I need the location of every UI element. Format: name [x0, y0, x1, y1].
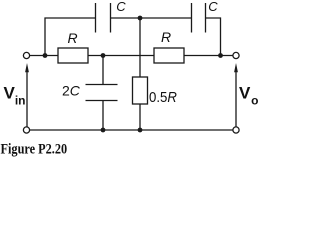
node A junction dot [43, 53, 48, 58]
resistor R2 [154, 48, 184, 63]
Vo arrowhead [234, 63, 238, 72]
svg-text:Figure P2.20: Figure P2.20 [1, 140, 68, 156]
capacitor C3 2C [86, 85, 118, 101]
wire Vo arrow shaft [235, 72, 237, 127]
wire R2 to output terminal [184, 55, 233, 57]
node C junction dot [101, 53, 106, 58]
node E junction dot [101, 128, 106, 133]
wire top rail right with drop to output node [206, 18, 221, 56]
wire riser node B to 0.5R [139, 18, 141, 77]
svg-text:2C: 2C [62, 83, 81, 99]
wire 2C to bottom rail [102, 101, 104, 131]
svg-text:Vo: Vo [239, 84, 258, 108]
wire node C riser to 2C [102, 56, 104, 85]
svg-text:0.5R: 0.5R [149, 88, 177, 105]
svg-text:C: C [208, 0, 218, 14]
wire Vin arrow shaft [26, 72, 28, 127]
terminal output top [233, 52, 239, 58]
resistor R3 0.5R [133, 77, 148, 104]
svg-text:C: C [116, 0, 126, 14]
node D junction dot [218, 53, 223, 58]
wire node A riser and top rail left [45, 18, 96, 56]
wire R1 to R2 [88, 55, 154, 57]
terminal output bottom [233, 127, 239, 133]
wire input to node A [30, 55, 58, 57]
wire top rail middle [111, 17, 192, 19]
svg-text:R: R [161, 29, 171, 45]
capacitor C2 [192, 3, 206, 33]
node B junction dot [138, 16, 143, 21]
terminal input top [23, 52, 29, 58]
svg-text:R: R [68, 30, 78, 46]
resistor R1 [58, 48, 88, 63]
terminal input bottom [23, 127, 29, 133]
node F junction dot [138, 128, 143, 133]
capacitor C1 [96, 3, 111, 33]
wire bottom rail [30, 129, 233, 131]
wire 0.5R to bottom rail [139, 104, 141, 130]
Vin arrowhead [25, 63, 29, 72]
svg-text:Vin: Vin [4, 84, 26, 108]
